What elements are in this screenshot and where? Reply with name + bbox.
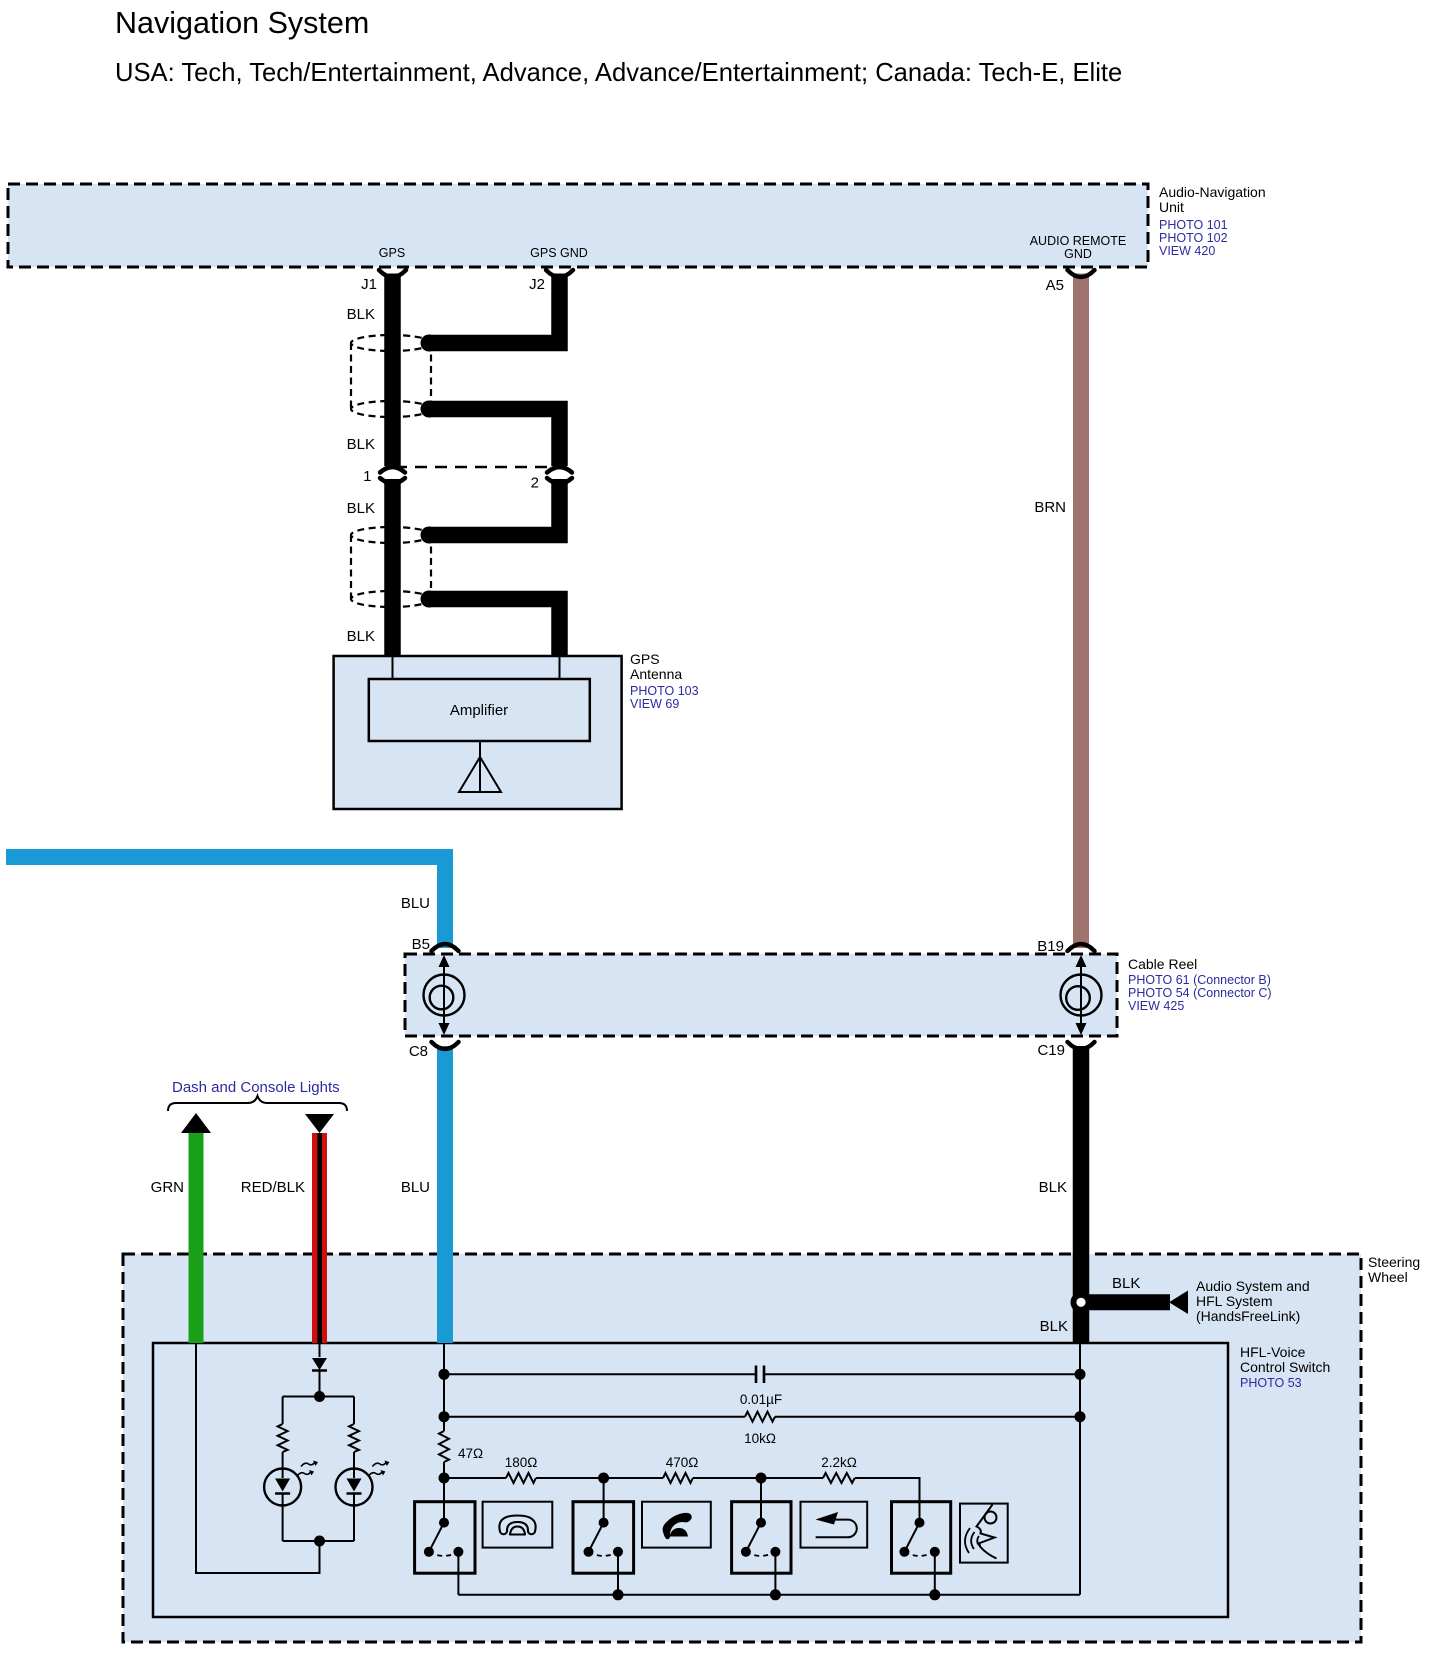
svg-text:VIEW 425: VIEW 425 [1128, 999, 1184, 1013]
svg-text:PHOTO 102: PHOTO 102 [1159, 231, 1228, 245]
svg-text:Control Switch: Control Switch [1240, 1359, 1330, 1375]
svg-text:Amplifier: Amplifier [450, 702, 508, 719]
svg-text:Unit: Unit [1159, 199, 1184, 215]
svg-text:USA: Tech, Tech/Entertainment,: USA: Tech, Tech/Entertainment, Advance, … [115, 59, 1122, 87]
svg-text:BRN: BRN [1034, 499, 1066, 516]
svg-text:BLU: BLU [401, 1179, 430, 1196]
svg-text:HFL-Voice: HFL-Voice [1240, 1344, 1306, 1360]
svg-text:10kΩ: 10kΩ [744, 1431, 776, 1446]
svg-text:B5: B5 [412, 936, 430, 953]
svg-text:470Ω: 470Ω [666, 1455, 699, 1470]
svg-text:BLK: BLK [347, 628, 375, 645]
svg-text:PHOTO 54 (Connector C): PHOTO 54 (Connector C) [1128, 986, 1272, 1000]
svg-text:Wheel: Wheel [1368, 1269, 1408, 1285]
svg-text:BLK: BLK [347, 306, 375, 323]
svg-text:GPS: GPS [630, 651, 660, 667]
svg-text:47Ω: 47Ω [458, 1446, 483, 1461]
svg-text:GPS GND: GPS GND [530, 246, 588, 260]
svg-text:Navigation System: Navigation System [115, 6, 369, 40]
svg-text:180Ω: 180Ω [505, 1455, 538, 1470]
svg-text:VIEW 69: VIEW 69 [630, 697, 679, 711]
svg-text:AUDIO REMOTE: AUDIO REMOTE [1030, 234, 1127, 248]
svg-text:Dash and Console Lights: Dash and Console Lights [172, 1079, 340, 1096]
svg-text:PHOTO 103: PHOTO 103 [630, 684, 699, 698]
svg-text:BLU: BLU [401, 895, 430, 912]
svg-text:GRN: GRN [151, 1179, 184, 1196]
svg-text:C19: C19 [1037, 1042, 1065, 1059]
svg-text:RED/BLK: RED/BLK [241, 1179, 305, 1196]
svg-text:GPS: GPS [379, 246, 405, 260]
svg-text:B19: B19 [1037, 938, 1064, 955]
svg-text:J2: J2 [529, 276, 545, 293]
svg-text:BLK: BLK [347, 436, 375, 453]
svg-text:1: 1 [363, 468, 371, 485]
svg-text:Audio-Navigation: Audio-Navigation [1159, 184, 1266, 200]
svg-text:BLK: BLK [1040, 1318, 1068, 1335]
svg-text:PHOTO 101: PHOTO 101 [1159, 218, 1228, 232]
svg-text:PHOTO 53: PHOTO 53 [1240, 1376, 1302, 1390]
svg-text:J1: J1 [361, 276, 377, 293]
svg-text:Antenna: Antenna [630, 666, 682, 682]
svg-text:A5: A5 [1046, 277, 1064, 294]
svg-text:HFL System: HFL System [1196, 1293, 1273, 1309]
svg-text:GND: GND [1064, 247, 1092, 261]
svg-text:(HandsFreeLink): (HandsFreeLink) [1196, 1308, 1300, 1324]
svg-text:BLK: BLK [1039, 1179, 1067, 1196]
svg-text:Cable Reel: Cable Reel [1128, 956, 1197, 972]
svg-text:BLK: BLK [347, 500, 375, 517]
svg-text:2.2kΩ: 2.2kΩ [821, 1455, 857, 1470]
svg-text:BLK: BLK [1112, 1275, 1140, 1292]
svg-text:C8: C8 [409, 1043, 428, 1060]
svg-text:Steering: Steering [1368, 1254, 1420, 1270]
svg-text:0.01µF: 0.01µF [740, 1392, 782, 1407]
svg-text:PHOTO 61 (Connector B): PHOTO 61 (Connector B) [1128, 973, 1271, 987]
svg-text:Audio System and: Audio System and [1196, 1278, 1310, 1294]
svg-text:VIEW 420: VIEW 420 [1159, 244, 1215, 258]
svg-text:2: 2 [531, 475, 539, 492]
